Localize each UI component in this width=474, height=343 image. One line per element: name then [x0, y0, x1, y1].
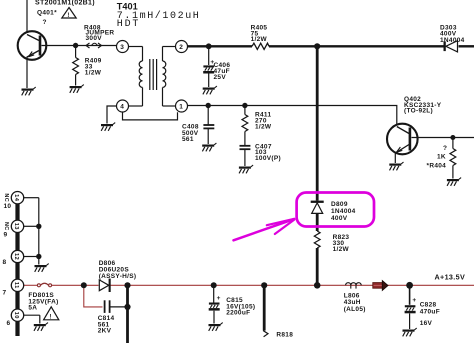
svg-text:+: +	[412, 297, 416, 304]
svg-text:100V(P): 100V(P)	[255, 155, 281, 162]
svg-text:(ASSY-H/S): (ASSY-H/S)	[99, 273, 137, 280]
svg-text:?: ?	[43, 19, 47, 26]
svg-text:A+13.5V: A+13.5V	[435, 273, 466, 282]
svg-text:1/2W: 1/2W	[255, 124, 272, 131]
svg-text:5A: 5A	[28, 305, 37, 312]
svg-text:43uH: 43uH	[344, 299, 361, 306]
svg-text:400V: 400V	[331, 215, 348, 222]
svg-text:Q401*: Q401*	[37, 10, 57, 17]
svg-text:C828: C828	[420, 302, 437, 309]
svg-text:1K: 1K	[437, 153, 446, 160]
svg-text:T401: T401	[117, 1, 138, 11]
svg-text:1: 1	[179, 104, 183, 111]
svg-text:1/2W: 1/2W	[251, 36, 268, 43]
svg-text:R818: R818	[276, 332, 293, 339]
svg-text:6: 6	[7, 320, 11, 327]
svg-text:16V: 16V	[420, 320, 433, 327]
svg-text:300V: 300V	[86, 35, 103, 42]
svg-text:3: 3	[120, 44, 124, 51]
svg-text:1/2W: 1/2W	[333, 246, 350, 253]
svg-text:25V: 25V	[214, 74, 227, 81]
svg-text:2KV: 2KV	[98, 328, 112, 335]
svg-text:10: 10	[13, 312, 19, 319]
svg-text:+: +	[217, 295, 221, 302]
svg-text:2: 2	[179, 44, 183, 51]
svg-text:?: ?	[443, 145, 447, 152]
svg-text:(AL05): (AL05)	[344, 306, 366, 313]
svg-text:NC: NC	[3, 222, 9, 231]
svg-text:7: 7	[3, 290, 7, 297]
svg-text:1/2W: 1/2W	[85, 70, 102, 77]
svg-text:!: !	[50, 314, 52, 320]
svg-text:1N4004: 1N4004	[440, 37, 465, 44]
svg-text:NC: NC	[3, 193, 9, 202]
svg-text:ST2001M1(02B1): ST2001M1(02B1)	[35, 0, 95, 6]
svg-text:2200uF: 2200uF	[226, 310, 250, 317]
svg-text:11: 11	[13, 282, 19, 289]
svg-text:561: 561	[182, 136, 194, 143]
svg-text:HDT: HDT	[117, 19, 140, 30]
svg-text:!: !	[67, 13, 69, 19]
svg-text:4: 4	[120, 104, 124, 111]
svg-text:D809: D809	[331, 201, 348, 208]
svg-text:13: 13	[13, 223, 19, 231]
svg-text:9: 9	[4, 231, 8, 238]
svg-text:14: 14	[13, 194, 19, 202]
svg-text:12: 12	[13, 253, 19, 260]
svg-text:1N4004: 1N4004	[331, 208, 356, 215]
svg-text:470uF: 470uF	[420, 309, 440, 316]
svg-text:*R404: *R404	[427, 163, 447, 170]
svg-text:8: 8	[3, 259, 7, 266]
svg-text:10: 10	[4, 203, 12, 210]
svg-text:(TO-92L): (TO-92L)	[404, 108, 433, 115]
